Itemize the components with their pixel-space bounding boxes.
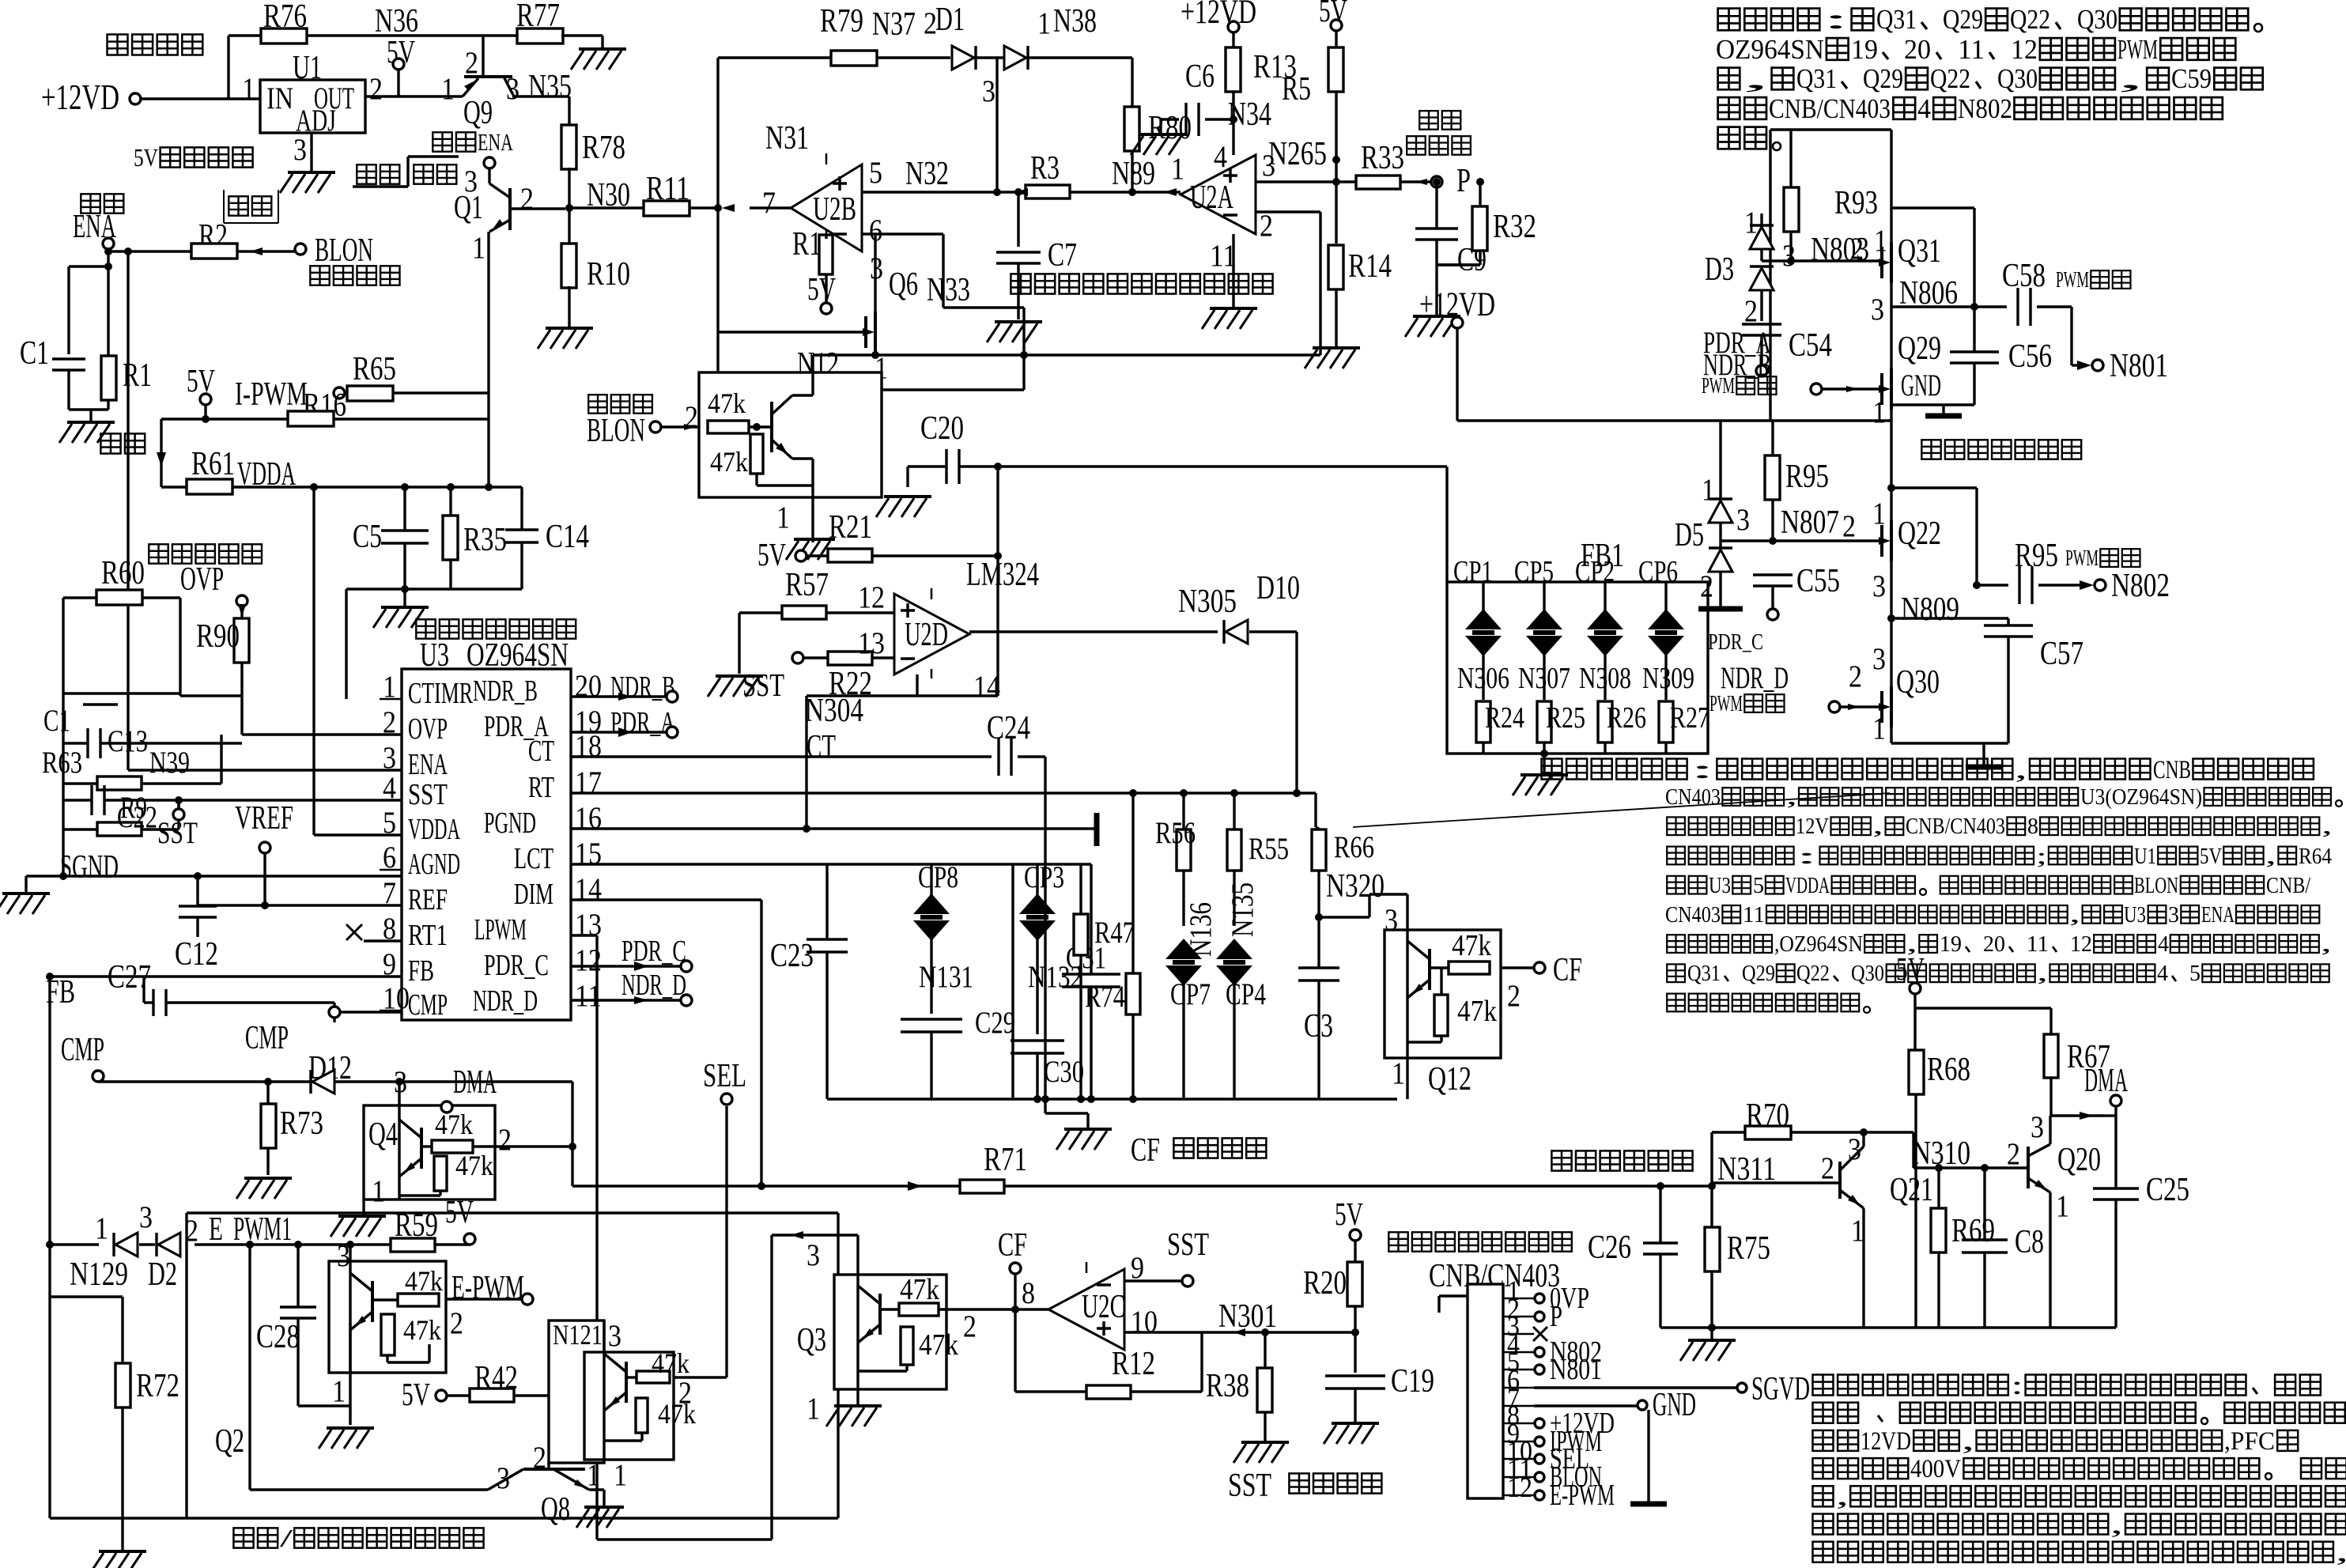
svg-text:E-PWM: E-PWM [451, 1269, 524, 1306]
text paragraph1 [1716, 4, 2263, 150]
terminal 5V dim [1896, 951, 1925, 1050]
svg-text:Q2: Q2 [215, 1423, 244, 1460]
svg-text:3: 3 [1736, 502, 1750, 537]
label N807 [1781, 504, 1839, 541]
svg-text:R27: R27 [1670, 701, 1709, 735]
mosfet Q31 [1874, 223, 1941, 283]
wire pin3 row [1171, 148, 1356, 186]
label N34 [1228, 96, 1271, 133]
svg-text:NDR_B: NDR_B [610, 671, 675, 704]
text 过电流保护 p [1407, 111, 1471, 155]
ground g-R72 [91, 1551, 146, 1568]
svg-text:12: 12 [2070, 931, 2092, 957]
wire U2A vcc [1230, 115, 1237, 123]
svg-text:U3: U3 [1709, 873, 1731, 898]
label N803 [1811, 231, 1869, 268]
transistor Q20 [2007, 1109, 2101, 1223]
svg-text:N320: N320 [1326, 867, 1385, 905]
svg-text:3: 3 [1872, 641, 1886, 676]
label NDR_D drv [1721, 660, 1789, 695]
diode N129 [70, 1211, 138, 1293]
svg-text:C56: C56 [2008, 338, 2052, 375]
resistor R9 [63, 790, 179, 836]
resistor R72 [50, 1297, 179, 1550]
wire Q20 coll DMA [2050, 1106, 2116, 1144]
svg-text:R1: R1 [792, 225, 822, 263]
terminal SEL [703, 1057, 746, 1105]
svg-text:R95: R95 [1785, 458, 1829, 495]
text 开关 box1 [224, 190, 278, 223]
svg-text:1: 1 [1392, 1056, 1405, 1090]
wire D12 row [98, 1078, 572, 1086]
mosfet Q29 [1872, 307, 1941, 429]
level step line [353, 157, 459, 187]
svg-text:N265: N265 [1268, 135, 1327, 172]
ground g-CF [1045, 1099, 1112, 1150]
svg-text:11: 11 [2027, 931, 2049, 957]
ground g-R10 [538, 328, 593, 349]
resistor R65 [345, 350, 489, 401]
svg-text:2: 2 [520, 181, 534, 216]
svg-text:C7: C7 [1048, 236, 1077, 274]
svg-text:2: 2 [498, 1122, 512, 1157]
wire CF-U2C [1015, 1275, 1048, 1310]
svg-text:1: 1 [441, 71, 455, 106]
svg-text:1: 1 [1037, 6, 1051, 40]
terminal 5V r59 [445, 1194, 475, 1245]
pin12 PDR_C out [571, 935, 692, 972]
label N37 2 [872, 6, 937, 43]
svg-text:3: 3 [1872, 569, 1886, 603]
svg-text:U2B: U2B [813, 191, 856, 228]
resistor R69 [1931, 1164, 1995, 1328]
text CNB/CN403 [1429, 1257, 1560, 1294]
capacitor C9 [1415, 178, 1487, 278]
terminal DMA q4 [441, 1064, 497, 1113]
svg-text:3: 3 [1871, 292, 1884, 327]
capacitor C31 [1013, 864, 1120, 1103]
wire D1 mid down [982, 58, 1132, 192]
svg-text:NDR_D: NDR_D [621, 969, 686, 1002]
svg-text:CP4: CP4 [1226, 977, 1266, 1011]
svg-text:1: 1 [614, 1457, 627, 1492]
svg-text:FB: FB [408, 954, 434, 988]
wire R3-U2A [1070, 155, 1181, 196]
svg-text:R26: R26 [1607, 701, 1646, 735]
capacitor C59 r95 [2015, 537, 2094, 604]
wire R71 row [572, 1181, 960, 1191]
svg-text:R73: R73 [280, 1105, 323, 1142]
svg-text:R32: R32 [1493, 208, 1536, 245]
svg-text:VDDA: VDDA [237, 455, 296, 493]
text PWM脉冲 drv1 [1702, 373, 1882, 399]
transistor N121 inner [584, 1321, 697, 1492]
terminal +12VD [41, 77, 141, 117]
capacitor C58 [2002, 257, 2091, 370]
svg-text:CP8: CP8 [918, 860, 958, 894]
svg-text:R74: R74 [1085, 979, 1125, 1014]
svg-text:Q30: Q30 [1851, 961, 1884, 986]
resistor R56 [1155, 793, 1196, 926]
svg-text:,: , [2265, 844, 2276, 869]
opamp U2A [1181, 139, 1256, 273]
svg-text:C28: C28 [256, 1318, 300, 1355]
text paragraph2 L1 [1542, 756, 2314, 784]
svg-text:N308: N308 [1579, 662, 1631, 695]
svg-text:R5: R5 [1282, 70, 1311, 108]
svg-text:Q1: Q1 [454, 189, 483, 226]
resistor R76 [229, 0, 519, 43]
wire dim bus [1660, 1328, 2116, 1339]
text 调光控制电路 [1551, 1150, 1692, 1170]
capacitor C56 [1944, 307, 2052, 405]
svg-text:BLON: BLON [315, 232, 373, 269]
svg-text::: : [1823, 4, 1849, 35]
wire Q12 pin1 [1406, 1058, 1408, 1099]
resistor R75 [1705, 1182, 1770, 1332]
svg-text:AGND: AGND [408, 848, 460, 881]
label N265 [1268, 135, 1340, 172]
svg-text:5: 5 [2189, 961, 2201, 986]
resistor R11 [644, 170, 718, 216]
svg-text:N807: N807 [1781, 504, 1839, 541]
svg-text:3: 3 [807, 1237, 820, 1272]
svg-text:R93: R93 [1834, 184, 1878, 221]
ground g-C7 [987, 322, 1042, 342]
svg-text:3: 3 [1385, 902, 1398, 937]
svg-text:,OZ964SN: ,OZ964SN [1774, 931, 1863, 957]
svg-text:C19: C19 [1391, 1362, 1434, 1400]
svg-text:N809: N809 [1901, 591, 1959, 628]
opamp U2B [791, 153, 862, 251]
terminal N801 [2092, 347, 2168, 384]
resistor R12 [1086, 1332, 1202, 1399]
label N38 [1053, 2, 1097, 40]
svg-text:U3: U3 [2124, 902, 2146, 928]
svg-text:N802: N802 [2111, 567, 2170, 604]
svg-text:CP6: CP6 [1638, 555, 1678, 588]
ground g-blon [786, 539, 835, 560]
svg-text:D3: D3 [1705, 251, 1734, 288]
svg-text:20: 20 [1904, 34, 1931, 65]
svg-text:C26: C26 [1588, 1229, 1631, 1266]
svg-text:47k: 47k [435, 1109, 474, 1140]
svg-text:DMA: DMA [453, 1064, 497, 1101]
resistor R74 [1085, 793, 1140, 1099]
resistor R20 [1303, 1262, 1362, 1373]
resistor R78 [561, 125, 625, 169]
wire C20 col [994, 463, 1002, 696]
svg-text:1: 1 [1872, 395, 1886, 429]
wire CT row [571, 728, 992, 765]
svg-text:3: 3 [497, 1460, 510, 1495]
svg-text:Q29: Q29 [1898, 330, 1941, 367]
pin8 rt1 stub [346, 924, 402, 941]
svg-text:C59: C59 [2171, 63, 2212, 94]
pgnd tick [1094, 813, 1100, 846]
svg-text:Q31: Q31 [1876, 4, 1917, 35]
svg-text:N304: N304 [805, 692, 863, 729]
wire ENA rail down [127, 251, 129, 770]
svg-text:12: 12 [1507, 1472, 1532, 1503]
wire U2B out [712, 204, 791, 212]
resistor R61 [161, 445, 522, 494]
ground g-U1 [280, 172, 335, 193]
svg-text:VDDA: VDDA [408, 813, 460, 846]
svg-text:9: 9 [1131, 1250, 1144, 1285]
wire Q9 to R78 [512, 96, 569, 127]
svg-text:1: 1 [1171, 151, 1184, 186]
svg-text:R55: R55 [1249, 831, 1289, 866]
svg-text:R69: R69 [1951, 1212, 1995, 1249]
svg-text:,PFC: ,PFC [2224, 1427, 2275, 1456]
svg-text:C57: C57 [2040, 635, 2083, 672]
svg-text:14: 14 [973, 669, 1000, 704]
text 开关 2 [100, 433, 145, 453]
svg-text:12: 12 [858, 580, 885, 614]
svg-text:CT: CT [528, 735, 554, 768]
dots cf [1041, 1095, 1137, 1103]
svg-text:R12: R12 [1112, 1345, 1155, 1382]
ground g-R77 [571, 49, 626, 70]
svg-text:U2A: U2A [1190, 179, 1233, 216]
svg-text:,: , [2117, 63, 2144, 94]
wire blon e gnd [811, 497, 814, 542]
svg-text:2: 2 [2007, 1136, 2020, 1171]
svg-text:Q31: Q31 [1796, 63, 1837, 94]
svg-text:3: 3 [608, 1318, 621, 1353]
wire Q1 emitter down [487, 232, 489, 487]
svg-text:12VD: 12VD [1861, 1427, 1911, 1456]
wire left rail [62, 598, 64, 876]
label N36 [375, 2, 418, 40]
transistor Q3 block [797, 1273, 958, 1426]
terminal SST c [1167, 1226, 1209, 1287]
svg-text:D1: D1 [935, 1, 965, 38]
svg-text:5: 5 [869, 155, 882, 190]
ground g-U2A [1202, 308, 1257, 329]
pin19 PDR_A out [571, 706, 678, 739]
svg-text:R63: R63 [42, 745, 82, 780]
node q1e [485, 483, 493, 491]
svg-text:10: 10 [1131, 1304, 1158, 1339]
svg-text:R60: R60 [101, 554, 145, 591]
svg-text:2: 2 [963, 1309, 977, 1343]
resistor R33 [1356, 139, 1431, 189]
svg-text:1: 1 [1872, 711, 1886, 746]
resistor R93 [1784, 130, 1878, 261]
svg-text:CNB/CN403: CNB/CN403 [1769, 93, 1891, 124]
svg-text:8: 8 [1022, 1275, 1035, 1310]
svg-text:BLON: BLON [2134, 873, 2178, 898]
wire U1 out [365, 95, 463, 97]
wire LPWM row [571, 935, 772, 1540]
svg-text:CMP: CMP [408, 988, 448, 1022]
svg-text:PDR_C: PDR_C [484, 949, 549, 982]
wire pin2 row [1256, 208, 1320, 355]
ground g-Q2 [319, 1428, 374, 1449]
FB1 box [1447, 467, 1708, 754]
label N136 [1183, 902, 1218, 957]
svg-text:3: 3 [2168, 902, 2179, 928]
wire Q4 pin1 gnd [362, 1200, 365, 1215]
wire R14 col [1335, 182, 1337, 244]
svg-text:SST: SST [1167, 1226, 1209, 1262]
svg-text:VREF: VREF [235, 799, 293, 837]
terminal I-PWM [235, 376, 345, 413]
svg-text:C25: C25 [2146, 1171, 2189, 1208]
wire CF bottom bus [827, 1098, 1397, 1100]
wire LCT row [571, 863, 827, 865]
terminal 5V r20 [1335, 1196, 1363, 1262]
svg-text:U2D: U2D [905, 616, 948, 653]
ground g-C20 [876, 497, 931, 517]
svg-text:LCT: LCT [514, 842, 553, 875]
svg-text:47k: 47k [708, 387, 746, 419]
svg-text:GND: GND [1901, 368, 1941, 402]
resistor R80 [1124, 58, 1192, 192]
svg-text:N89: N89 [1112, 155, 1155, 192]
svg-text:N131: N131 [919, 959, 973, 994]
resistor R47 [1074, 864, 1135, 1099]
text paragraph3 [1813, 1372, 2346, 1568]
terminal PDR_C [1708, 609, 1778, 655]
svg-text:CNB/: CNB/ [2266, 873, 2311, 898]
CF block top [827, 863, 1013, 865]
resistor R79 [718, 2, 950, 66]
svg-text:Q29: Q29 [1742, 961, 1775, 986]
text 背光灯控制电路 [416, 619, 576, 638]
svg-text:5V: 5V [807, 271, 836, 307]
resistor R21 [828, 508, 998, 562]
svg-text:CNB: CNB [2153, 756, 2191, 784]
wire U1 adj [310, 133, 312, 171]
wire Q2 e gnd [349, 1323, 351, 1425]
svg-text:1: 1 [807, 1391, 820, 1426]
diode D12 [308, 1049, 352, 1094]
pin11 NDR_D out [571, 969, 692, 1006]
wire N31 vert [714, 58, 809, 332]
terminal 5V r5 [1319, 0, 1347, 47]
svg-text:R10: R10 [587, 255, 630, 293]
svg-text:SST: SST [742, 667, 784, 703]
svg-text:NDR_D: NDR_D [473, 984, 538, 1018]
svg-text:;: ; [2036, 844, 2047, 869]
svg-text:R64: R64 [2299, 844, 2332, 869]
svg-text:N37: N37 [872, 6, 916, 43]
svg-text:C23: C23 [770, 937, 814, 974]
svg-text::: : [1796, 844, 1818, 869]
diode D5 [1675, 421, 1750, 609]
svg-text:,: , [2321, 814, 2333, 839]
wire D10 down [1249, 632, 1301, 797]
resistor R60 [63, 554, 242, 696]
svg-text:Q30: Q30 [1896, 663, 1940, 701]
svg-text:C1: C1 [20, 334, 49, 372]
capacitor C1b [43, 693, 180, 738]
svg-text:5V: 5V [187, 363, 215, 399]
node N803 [1762, 257, 1882, 265]
svg-text:2: 2 [533, 1440, 546, 1475]
svg-text:R47: R47 [1094, 915, 1135, 950]
svg-text:U2C: U2C [1082, 1288, 1125, 1325]
label N311 [1717, 1150, 1776, 1188]
svg-text:ENA: ENA [2201, 902, 2235, 928]
svg-text:C8: C8 [2015, 1223, 2044, 1260]
resistor R66 [1312, 827, 1374, 917]
resistor R16 [161, 387, 489, 426]
mosfet Q6 [718, 234, 918, 385]
svg-text:Q31: Q31 [1898, 232, 1941, 270]
svg-text:Q21: Q21 [1890, 1171, 1933, 1208]
wire Q3 out [939, 1305, 1019, 1343]
svg-text:3: 3 [139, 1200, 153, 1234]
svg-text:CTIMR: CTIMR [408, 677, 474, 710]
diode D3 [1705, 205, 1796, 328]
svg-text:C58: C58 [2002, 257, 2046, 294]
svg-text:R72: R72 [136, 1367, 179, 1404]
wire R78-N30 [568, 168, 570, 245]
resistor R32 [1437, 178, 1536, 265]
svg-text:I-PWM: I-PWM [235, 376, 308, 413]
svg-text:3: 3 [1782, 238, 1796, 273]
svg-text:5V: 5V [134, 143, 158, 172]
wire U2A gnd [1232, 234, 1234, 307]
capacitor C6 [1185, 58, 1233, 136]
U3 left pins [380, 669, 474, 1022]
svg-text:,: , [1743, 63, 1770, 94]
svg-text:P: P [1550, 1300, 1562, 1333]
svg-text:N129: N129 [70, 1256, 128, 1293]
ground g-Q8 [576, 1507, 624, 1528]
svg-text:E: E [209, 1211, 223, 1248]
capacitor C25 [2093, 1116, 2189, 1328]
svg-text:1: 1 [1744, 205, 1758, 240]
transistor Q1 [454, 164, 565, 265]
label PWM脉冲 n801 [2056, 267, 2131, 293]
svg-text:,: , [2069, 902, 2080, 928]
svg-text:N306: N306 [1457, 662, 1509, 695]
svg-text:47k: 47k [455, 1150, 494, 1181]
svg-text:N309: N309 [1642, 662, 1694, 695]
svg-text:R67: R67 [2067, 1038, 2110, 1075]
svg-text:,: , [1906, 931, 1917, 957]
FB1 labels [1453, 555, 1709, 735]
svg-text:2: 2 [1507, 978, 1521, 1013]
capacitor C5 [353, 483, 429, 589]
svg-text:7: 7 [762, 185, 776, 220]
svg-text:PWM1: PWM1 [233, 1211, 292, 1248]
resistor R13 [1226, 32, 1297, 155]
terminal SST u2d [742, 652, 829, 703]
svg-text:5V: 5V [402, 1377, 430, 1412]
svg-text:4: 4 [1917, 93, 1931, 124]
label FB1 [1581, 537, 1624, 574]
wire Q20 emitter [2049, 1192, 2051, 1328]
terminal N802 [2095, 567, 2170, 604]
svg-text:Q22: Q22 [1898, 515, 1941, 552]
svg-text:R38: R38 [1206, 1367, 1249, 1404]
label N35 [528, 68, 572, 105]
svg-text:2: 2 [1842, 508, 1856, 543]
cp CP8 [913, 860, 973, 1014]
wire Q3 pin1 gnd [856, 1389, 859, 1404]
svg-text:1: 1 [242, 71, 255, 106]
IC U3 box [402, 669, 571, 1020]
pin2 OVP wire [242, 733, 402, 735]
svg-text:47k: 47k [710, 446, 749, 478]
svg-text:Q3: Q3 [797, 1321, 826, 1358]
